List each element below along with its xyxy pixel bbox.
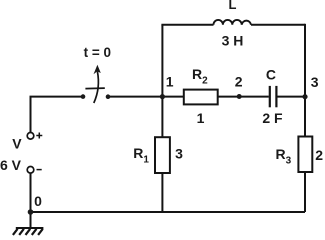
ground hatch stroke 3 — [26, 229, 31, 235]
ground hatch stroke 1 — [13, 229, 18, 235]
wire: bottom rail from node 0 to R3 branch — [31, 211, 306, 213]
svg-text:R3: R3 — [276, 146, 292, 167]
svg-text:R2: R2 — [192, 66, 208, 87]
svg-text:t = 0: t = 0 — [84, 45, 111, 60]
switch right terminal dot — [106, 94, 111, 99]
wire: node 3 down to R3 top lead — [304, 97, 306, 137]
resistor R1 body — [155, 137, 170, 173]
source + terminal circle — [27, 133, 34, 140]
wire: R2 right lead to capacitor left plate — [218, 96, 269, 98]
switch arrowhead — [94, 65, 101, 74]
resistor R3 body — [298, 137, 312, 173]
switch blade bar — [85, 87, 104, 90]
ground bar — [16, 227, 44, 229]
svg-text:2: 2 — [235, 74, 243, 90]
plus sign of source — [36, 133, 42, 139]
wire: node 1 down to R1 top lead — [161, 97, 163, 138]
svg-text:1: 1 — [197, 110, 205, 126]
inductor L coil — [214, 20, 251, 25]
svg-text:C: C — [266, 67, 276, 83]
wire: top rail right segment from inductor to top-right corner — [251, 24, 305, 26]
wire: middle rail left segment to switch left terminal — [30, 96, 84, 98]
svg-text:3 H: 3 H — [222, 33, 244, 49]
svg-text:6 V: 6 V — [0, 157, 22, 173]
node 2 junction dot — [237, 94, 242, 99]
wire: right vertical from top-right corner down to node 3 — [304, 24, 306, 97]
wire: switch right terminal to node 1 — [108, 96, 162, 98]
ground hatch stroke 2 — [19, 229, 24, 235]
source - terminal circle — [27, 167, 34, 174]
wire: node 1 to R2 left lead — [162, 96, 183, 98]
svg-text:L: L — [229, 0, 237, 12]
ground hatch stroke 4 — [32, 229, 37, 235]
wire: ground stem below node 0 — [30, 212, 32, 227]
svg-text:V: V — [12, 136, 22, 152]
svg-text:2 F: 2 F — [262, 110, 283, 126]
wire: capacitor right plate to node 3 — [277, 96, 305, 98]
svg-text:3: 3 — [175, 145, 183, 161]
node 0 junction dot — [28, 209, 34, 215]
svg-text:R1: R1 — [133, 145, 149, 166]
wire: top rail left segment to inductor — [161, 24, 213, 26]
switch left terminal dot — [81, 94, 86, 99]
wire: R1 bottom lead to bottom rail — [161, 173, 163, 212]
svg-text:2: 2 — [315, 147, 323, 163]
svg-text:1: 1 — [166, 74, 174, 90]
minus sign of source — [37, 169, 42, 171]
capacitor C right plate — [275, 86, 277, 107]
wire: node 1 up left vertical of top loop — [161, 25, 163, 97]
resistor R2 body — [184, 90, 218, 105]
ground hatch stroke 5 — [38, 229, 43, 235]
node 3 junction dot — [302, 94, 307, 99]
wire: source negative terminal down to node 0 — [30, 173, 32, 212]
svg-text:3: 3 — [311, 74, 319, 90]
capacitor C left plate — [269, 86, 271, 107]
wire: R3 bottom lead to bottom rail — [304, 172, 306, 212]
node 1 junction dot — [160, 94, 165, 99]
wire: source positive terminal up to middle rail corner — [30, 97, 32, 133]
svg-text:0: 0 — [34, 193, 42, 209]
switch actuation arrow curve — [94, 72, 99, 104]
